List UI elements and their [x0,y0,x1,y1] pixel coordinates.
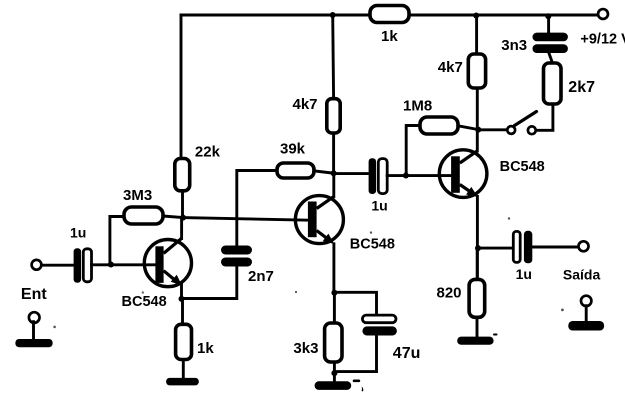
resistor R 1M8 [420,117,458,134]
svg-text:Saída: Saída [563,267,601,283]
svg-text:1u: 1u [70,224,86,240]
label Saída [563,267,601,283]
wire 47u bottom to 3k3 bottom node [334,336,376,372]
wire 3n3 to 2k7 [549,53,553,63]
label 3n3 [501,37,527,54]
svg-text:BC548: BC548 [500,159,545,175]
wire Q2 emitter node to 47u top [334,292,376,315]
wire 3M3 left lead down to Q1 base node [110,217,124,265]
svg-text:2k7: 2k7 [568,79,595,96]
transistor Q3 collector stroke [460,151,478,163]
junction dot rail/4k7-right [473,13,479,19]
svg-text:4k7: 4k7 [293,96,318,113]
capacitor C 3n3 [533,33,568,53]
label 4k7 (right) [438,59,463,76]
label 3M3 [123,187,152,204]
wire 4k7-mid to node [332,133,335,173]
label 1M8 [403,98,432,115]
wire 4k7-right branch from rail [475,16,478,55]
transistor Q2 collector stroke [317,196,335,208]
svg-text:3n3: 3n3 [501,37,527,54]
wire Q2 collector riser [332,173,335,197]
label 1u (interstage) [371,198,387,214]
resistor R 3M3 [124,207,163,224]
capacitor C 1u (input) plates [74,248,92,282]
resistor R 22k [175,159,190,191]
label 1u (output) [516,266,532,282]
speck near 3k3 ground [353,334,498,392]
label 2n7 [248,268,274,285]
wire node to 1u coupling cap [334,172,369,175]
junction dot Q2 emitter node [331,290,337,296]
svg-text:22k: 22k [195,144,221,161]
speck artifacts [53,217,564,328]
wire 820 to ground [476,317,479,336]
wire left rail drop to 22k [180,15,183,159]
svg-text:47u: 47u [393,345,421,362]
svg-text:4k7: 4k7 [438,59,463,76]
transistor Q1 base bar [155,246,163,283]
switch S1 lever [515,112,537,126]
capacitor C 2n7 [221,246,252,267]
svg-text:2n7: 2n7 [248,268,274,285]
label 22k [195,144,221,161]
wire 39k right lead to Q2 collector node [314,171,334,173]
wire 3M3 right lead to collector node [163,216,183,218]
svg-text:1u: 1u [516,266,532,282]
wire Q1 collector node to Q2 base [183,218,308,221]
label 2k7 [568,79,595,96]
wire 39k left lead down to 2n7 [237,171,277,246]
wire Q3 emitter down to output node [476,197,479,280]
ground (3k3 / 47u) [315,381,352,390]
wire 1u out to Saída terminal [532,246,576,249]
svg-text:+9/12 V: +9/12 V [580,32,625,48]
svg-text:39k: 39k [280,140,306,157]
wire 1k to ground [182,360,185,379]
svg-text:BC548: BC548 [350,237,395,253]
transistor Q1 BC548 circle [144,240,191,287]
label 47u [393,345,421,362]
junction dot Q1 emitter node [179,296,185,302]
wire 1u to Q1 base [92,263,156,266]
svg-text:Ent: Ent [21,286,47,303]
svg-text:BC548: BC548 [122,294,167,310]
resistor R 2k7 [544,63,562,104]
svg-text:1u: 1u [371,198,387,214]
wire Q3-collector node to switch [478,128,506,131]
resistor R 4k7 (Q3 collector) [468,54,485,88]
label Ent [21,286,47,303]
ground marker output (Saída) [568,296,604,331]
junction dot Q3 collector node [475,127,481,133]
switch S1 contact right [528,126,536,134]
resistor R 820 [469,279,485,317]
transistor Q1 emitter stroke with arrow [164,271,182,286]
junction dot Q3 base node [403,173,409,179]
svg-text:1k: 1k [197,340,214,357]
ground (Q1 emitter) [166,378,199,386]
transistor Q2 base bar [308,202,317,238]
resistor R 1k (Q1 emitter) [176,324,192,359]
wire 4k7-mid branch from rail [331,15,335,99]
wire Q2 emitter node to 3k3 [333,293,336,323]
ground marker input (Ent) [15,312,52,347]
junction dot Q1 collector node [180,215,186,221]
label BC548 (Q2) [350,237,395,253]
transistor Q3 base bar [451,156,460,193]
label 3k3 [293,340,318,357]
wire 1M8 right lead to collector node [458,126,478,130]
resistor R 39k [277,163,314,178]
transistor Q2 emitter stroke with arrow [317,231,335,245]
resistor R 3k3 [325,323,342,362]
transistor Q3 BC548 circle [439,150,487,198]
svg-text:1M8: 1M8 [403,98,432,115]
capacitor C 47u plates [362,315,397,335]
capacitor C 1u (interstage) plates [369,158,388,194]
wire 3n3 branch from rail [547,16,550,32]
switch S1 contact left [507,126,515,134]
svg-text:1k: 1k [381,28,398,45]
wire 4k7-right to Q3 collector [476,89,479,152]
terminal input Ent [32,260,42,270]
wire Q1 emitter node to 1k [181,299,184,324]
wire input terminal to 1u [41,264,73,267]
svg-text:3M3: 3M3 [123,187,152,204]
resistor R 4k7 (Q2 collector) [327,99,340,133]
label 1k (Q1 emitter) [197,340,214,357]
label 1u (input) [70,224,86,240]
label 39k [280,140,306,157]
junction dot Q1 base node [108,262,114,268]
svg-text:3k3: 3k3 [293,340,318,357]
transistor Q1 collector stroke [164,238,182,253]
label 820 [437,285,462,302]
wire Q1 emitter drop [180,285,183,300]
junction dot 3k3 bottom node [331,370,337,376]
label 4k7 (mid) [293,96,318,113]
transistor Q2 BC548 circle [295,196,343,244]
wire 2k7 to switch [537,104,553,130]
wire 1M8 left lead down to Q3 base node [406,126,420,176]
junction dot Q2 collector node [331,170,337,176]
ground (820) [457,337,493,345]
terminal Saída [579,241,589,251]
wire 1u to Q3 base [387,174,451,177]
terminal +9/12V [598,9,608,19]
wire top supply rail [181,14,597,17]
wire output node to 820 [476,248,479,279]
junction dot rail/3n3 [545,13,551,19]
wire Q1 collector riser [180,218,183,239]
label BC548 (Q1) [122,294,167,310]
transistor Q3 emitter stroke with arrow [460,185,478,198]
wire Q2 emitter drop [332,244,335,293]
resistor R 1k (top rail) [370,6,409,23]
junction dot output node [475,245,481,251]
wire 22k bottom to Q1 collector node [181,191,184,218]
wire output node to 1u out [478,247,513,250]
capacitor C 1u (output) plates [513,231,532,263]
label 1k (top) [381,28,398,45]
junction dot rail/4k7-mid [330,12,336,18]
label BC548 (Q3) [500,159,545,175]
wire Q1 emitter node to 2n7 bottom [182,267,237,299]
svg-text:820: 820 [437,285,462,302]
wire 3k3 bottom to ground [333,362,336,381]
label +9/12 V [580,32,625,48]
